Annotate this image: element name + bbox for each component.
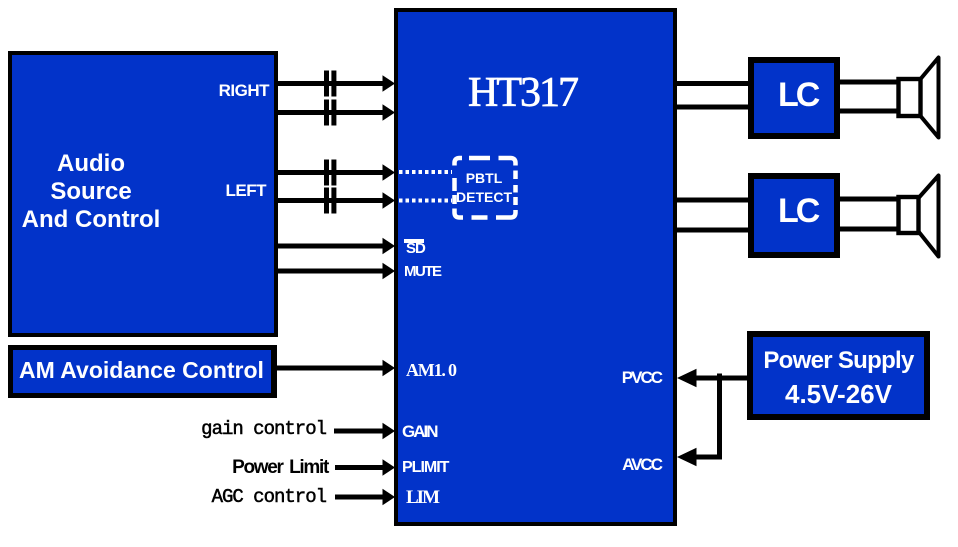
wire MUTE	[278, 269, 384, 274]
arrow into MUTE	[383, 263, 396, 280]
wire SD	[278, 244, 384, 249]
block: LC filter 1	[748, 57, 840, 139]
speaker 2	[899, 176, 939, 257]
block: LC filter 2	[748, 173, 840, 258]
label Power Limit	[0, 458, 328, 477]
wire branch down to AVCC row	[717, 374, 722, 458]
wire OUT1- to LC1	[676, 105, 748, 110]
capacitor on LEFT bottom	[324, 188, 336, 214]
arrow into PLIMIT	[383, 459, 396, 476]
block: Audio Source And Control	[8, 51, 278, 337]
pin label LIM	[406, 488, 438, 507]
wire OUT1+ to LC1	[676, 81, 748, 86]
wire AGC control	[335, 495, 384, 500]
pin label AVCC	[622, 456, 661, 473]
capacitor on LEFT top	[324, 160, 336, 186]
arrow into LIN2	[383, 192, 396, 209]
wire LC2 to speaker top	[840, 197, 900, 202]
block: Power Supply 4.5V-26V	[747, 331, 930, 420]
wire LC2 to speaker bottom	[840, 227, 900, 232]
pin label SD	[406, 241, 425, 256]
label RIGHT	[219, 82, 269, 99]
arrow into SD	[383, 238, 396, 255]
pin label MUTE	[404, 264, 441, 279]
label PBTL	[453, 171, 515, 185]
dashed box PBTL DETECT	[455, 158, 516, 218]
label LEFT	[226, 182, 267, 199]
block: HT317 amplifier IC	[394, 8, 677, 526]
arrow into PVCC	[677, 369, 697, 387]
wire LEFT bottom	[278, 198, 384, 203]
wire power supply to PVCC	[692, 376, 747, 381]
capacitor on RIGHT bottom	[324, 100, 336, 126]
arrow into LIN1	[383, 164, 396, 181]
pin SD overline	[404, 239, 424, 243]
arrow into LIM	[383, 489, 396, 506]
wire RIGHT top	[278, 81, 384, 86]
wire LEFT top	[278, 170, 384, 175]
wire gain control	[334, 429, 384, 434]
wire AM avoidance	[277, 366, 384, 371]
wire LC1 to speaker top	[840, 80, 898, 85]
arrow into AM1.0	[383, 360, 396, 377]
label DETECT	[453, 190, 515, 204]
wire LC1 to speaker bottom	[840, 109, 898, 114]
wire Power Limit	[335, 465, 384, 470]
arrow into AVCC	[677, 448, 697, 466]
label gain control	[0, 420, 326, 439]
pin label PVCC	[622, 369, 661, 386]
dotted net into PBTL detect bottom	[399, 199, 452, 203]
wire OUT2- to LC2	[676, 228, 748, 233]
block: AM Avoidance Control	[8, 345, 277, 398]
pin label PLIMIT	[402, 460, 448, 476]
wire to AVCC	[692, 455, 722, 460]
pin label GAIN	[402, 423, 437, 440]
dotted net into PBTL detect top	[399, 170, 452, 174]
wire RIGHT bottom	[278, 110, 384, 115]
capacitor on RIGHT top	[324, 71, 336, 97]
arrow into RIN1	[383, 75, 396, 92]
label HT317	[468, 72, 577, 114]
speaker 1	[899, 58, 939, 138]
arrow into GAIN	[383, 423, 396, 440]
pin label AM1.0	[406, 361, 456, 379]
label AGC control	[0, 488, 326, 507]
arrow into RIN2	[383, 104, 396, 121]
wire OUT2+ to LC2	[676, 198, 748, 203]
